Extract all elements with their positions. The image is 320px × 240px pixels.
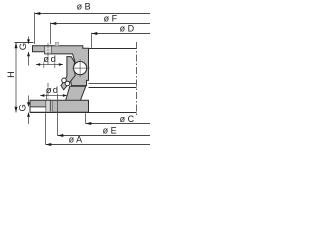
- svg-text:ø D: ø D: [120, 23, 135, 33]
- svg-text:ø B: ø B: [77, 1, 91, 11]
- svg-text:G: G: [17, 104, 28, 111]
- svg-text:ø C: ø C: [120, 114, 135, 124]
- svg-text:d: d: [53, 85, 58, 96]
- svg-text:ø F: ø F: [104, 14, 118, 24]
- svg-text:ø: ø: [43, 54, 49, 65]
- svg-text:G: G: [18, 43, 29, 50]
- svg-text:H: H: [6, 71, 16, 78]
- svg-text:ø A: ø A: [69, 134, 83, 144]
- svg-text:ø E: ø E: [103, 126, 117, 136]
